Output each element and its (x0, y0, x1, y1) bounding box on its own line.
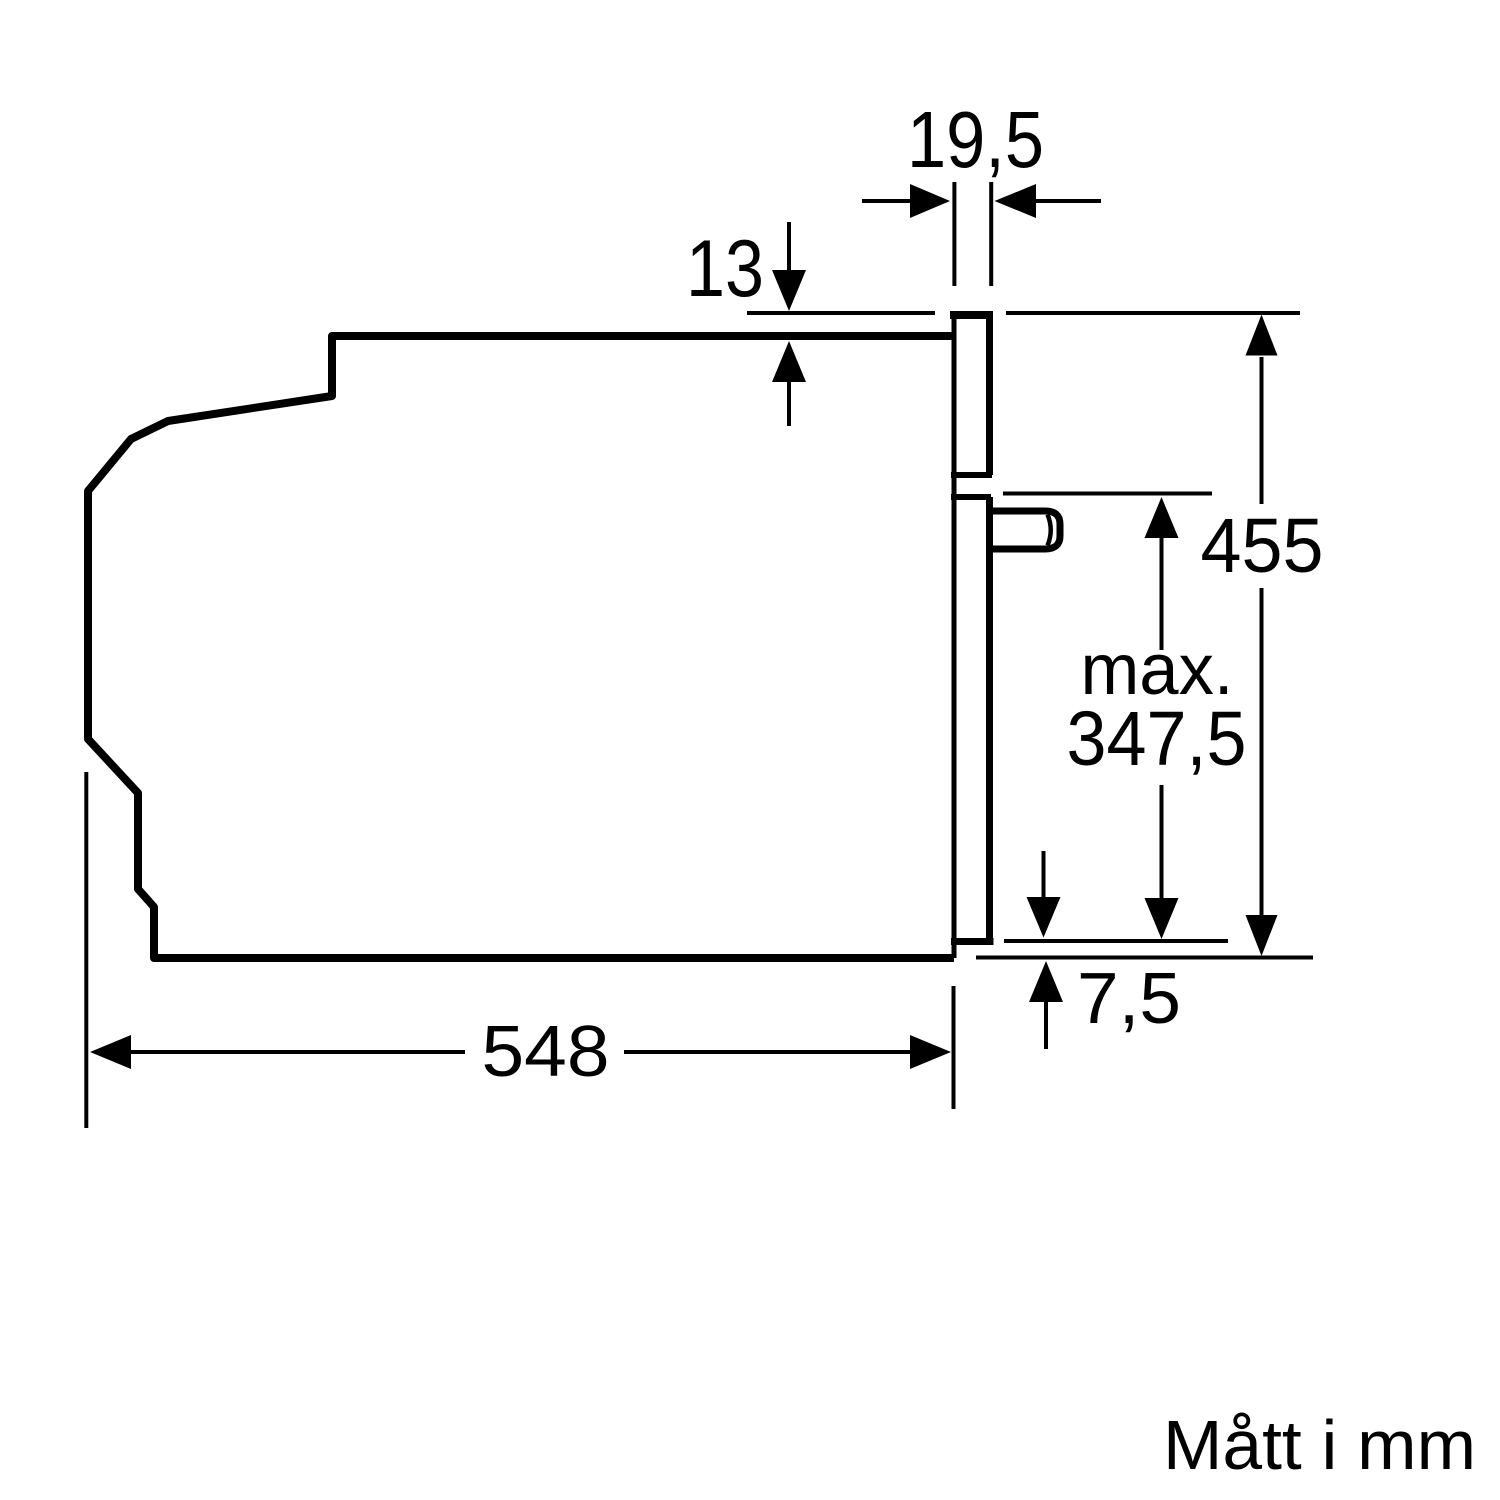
max height top reference line (1003, 492, 1212, 496)
door notch top bar (951, 472, 992, 478)
19,5 right extension line (989, 182, 993, 286)
19,5 dimension line left with arrow (862, 199, 912, 203)
door top edge (950, 311, 993, 319)
7,5 down arrow (1042, 851, 1046, 899)
svg-text:13: 13 (686, 224, 764, 314)
19,5 dimension line right with arrow (995, 184, 1037, 218)
548 left extension line (84, 772, 88, 1128)
svg-text:347,5: 347,5 (1067, 696, 1247, 782)
handle cap arc (1048, 515, 1051, 546)
bottom reference line (976, 956, 1313, 960)
door bottom edge (951, 938, 994, 945)
oven right wall / door inner face (952, 313, 957, 958)
handle (989, 511, 1060, 549)
door outer face upper (986, 313, 993, 475)
max 347,5 dimension line (1160, 536, 1164, 650)
svg-text:Mått i mm: Mått i mm (1163, 1406, 1476, 1484)
13 up arrow (772, 341, 806, 382)
door notch bottom bar (951, 494, 991, 500)
oven body outline (88, 336, 954, 958)
19,5 left extension line (952, 182, 956, 286)
svg-text:455: 455 (1201, 503, 1324, 589)
455 dimension line (1260, 357, 1264, 504)
svg-text:19,5: 19,5 (907, 95, 1044, 184)
svg-text:7,5: 7,5 (1077, 959, 1181, 1039)
548 dimension line with arrows (90, 1035, 131, 1069)
max height bottom reference line (1004, 939, 1228, 943)
svg-text:548: 548 (482, 1012, 610, 1092)
door top reference line left (747, 311, 935, 315)
13 down arrow (787, 222, 791, 272)
7,5 up arrow (1029, 961, 1063, 1002)
548 right extension line (952, 986, 956, 1109)
door top reference line right (1006, 311, 1300, 315)
door outer face lower (986, 497, 993, 941)
